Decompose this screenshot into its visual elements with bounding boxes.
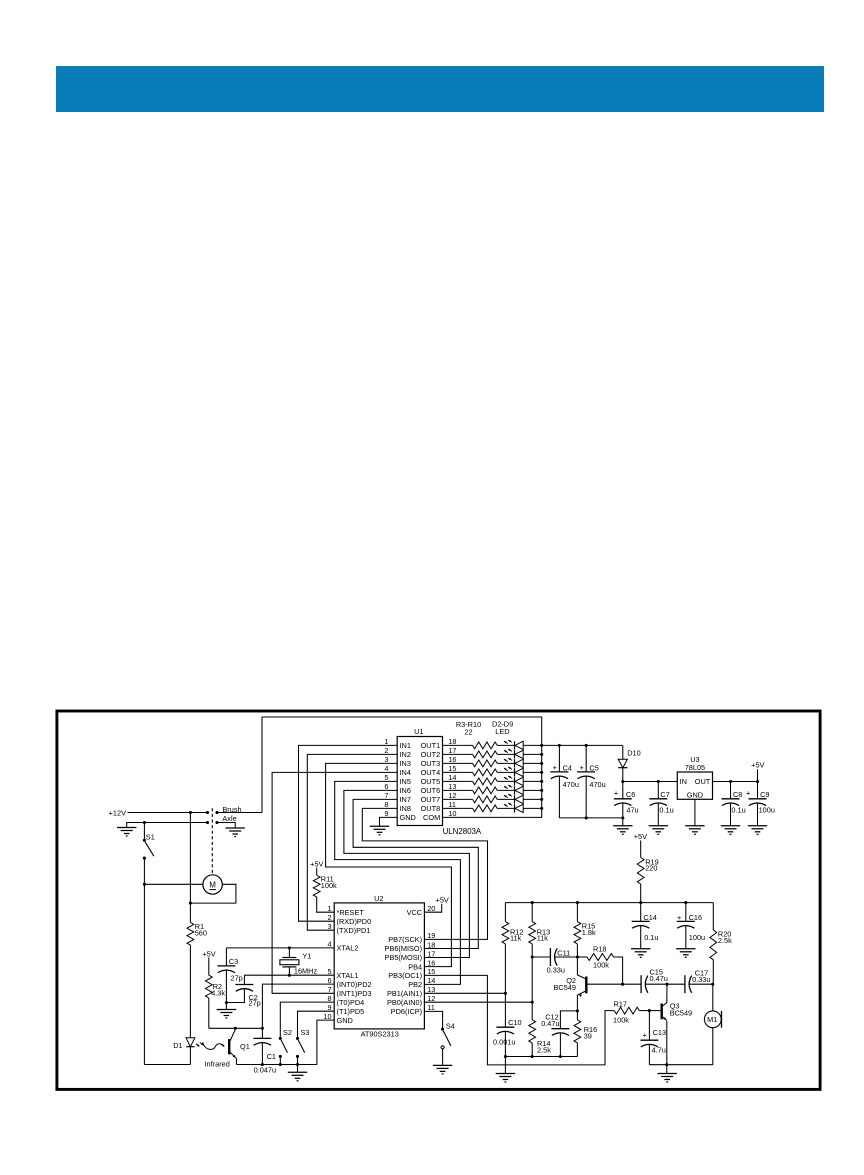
wire U2 pin9 to S3 [298,1011,335,1038]
ground at U3 [685,825,704,827]
svg-text:AT90S2313: AT90S2313 [361,1029,399,1038]
wire LED rail to C4 C5 D10 [542,744,623,746]
svg-text:4: 4 [384,764,388,773]
svg-text:C9: C9 [760,790,769,799]
svg-text:XTAL1: XTAL1 [337,971,359,980]
ic U1 ULN2803A body [397,727,482,836]
wire U2 pin11 to S4 [424,1011,442,1029]
svg-text:VCC: VCC [407,908,423,917]
svg-text:C7: C7 [660,790,669,799]
resistor R9 [443,796,515,803]
svg-text:+: + [677,913,681,922]
junction axle left brush [206,821,209,824]
svg-text:PB1(AIN1): PB1(AIN1) [387,989,422,998]
junction R14 gnd [531,1055,534,1058]
svg-text:27p: 27p [249,999,261,1008]
junction LED row 1 [540,744,543,747]
resistor R3 [443,742,515,749]
wire R13 to R14 [531,957,533,1002]
junction brush left [206,811,209,814]
wire S1 down [143,858,145,1064]
ground at C6 [613,818,632,834]
wire axle left [127,823,208,828]
resistor R2 4.3k [205,958,225,1029]
capacitor C11 0.33u [532,948,577,975]
wire analog +5V rail [505,902,713,904]
svg-text:+5V: +5V [202,949,215,958]
svg-text:13: 13 [427,985,435,994]
junction C7 top [657,780,660,783]
svg-text:+12V: +12V [109,808,126,817]
svg-text:0.47u: 0.47u [541,1019,559,1028]
junction C16 top [684,901,687,904]
svg-text:+5V: +5V [310,859,323,868]
wire U1 IN2 to U2 pin3 [307,754,397,930]
svg-text:7: 7 [328,985,332,994]
wire C4 C5 ground rail [559,817,622,819]
svg-text:0.1u: 0.1u [659,806,673,815]
svg-text:2: 2 [384,746,388,755]
svg-text:2.5k: 2.5k [718,936,732,945]
svg-text:0.47u: 0.47u [650,974,668,983]
svg-text:(T0)PD4: (T0)PD4 [337,998,365,1007]
svg-text:PB7(SCK): PB7(SCK) [388,935,422,944]
U1 pin9 ground [380,817,398,826]
wire U2 pin10 GND [317,1020,334,1064]
svg-text:0.1u: 0.1u [731,806,745,815]
node +5V to R19 [634,832,647,858]
wire U1 IN6 to U2 pin17 [344,790,470,957]
svg-text:OUT3: OUT3 [421,759,441,768]
junction S3 gnd [296,1063,299,1066]
capacitor C8 0.1u [722,782,746,826]
svg-text:12: 12 [427,994,435,1003]
svg-text:GND: GND [337,1016,353,1025]
capacitor C4 470u [550,745,579,818]
junction R20 M1 node [711,983,714,986]
svg-text:1.8k: 1.8k [582,928,596,937]
transistor Q3 BC549 [649,984,692,1064]
svg-text:4: 4 [328,940,332,949]
junction C6 bottom [621,816,624,819]
svg-text:16: 16 [448,755,456,764]
capacitor C9 100u [746,782,775,826]
wire U1 IN5 to U2 pin14 [335,781,461,984]
svg-text:IN8: IN8 [400,804,411,813]
svg-text:4.3k: 4.3k [211,988,225,997]
resistor R6 [443,769,515,776]
svg-text:10: 10 [323,1012,331,1021]
svg-text:100u: 100u [689,933,705,942]
page banner bar [56,66,824,112]
svg-text:8: 8 [384,800,388,809]
wire axle right [217,823,235,829]
svg-text:Axle: Axle [222,814,236,823]
junction C5 bottom [585,816,588,819]
svg-text:11: 11 [448,800,456,809]
svg-text:(INT0)PD2: (INT0)PD2 [337,980,372,989]
svg-text:C1: C1 [267,1052,276,1061]
svg-text:PB4: PB4 [408,962,422,971]
junction C3 C2 gnd [225,1001,228,1004]
svg-text:Brush: Brush [222,805,241,814]
junction C1 top [261,1027,264,1030]
wire XTAL1 [244,974,334,976]
junction S2 gnd [279,1063,282,1066]
svg-text:11: 11 [427,1003,435,1012]
svg-text:27p: 27p [231,974,243,983]
svg-text:14: 14 [427,976,435,985]
wire U1 IN4 to U2 pin7 [272,772,397,993]
junction Y1 top [288,946,291,949]
phototransistor Q1 [229,1030,250,1065]
svg-text:100k: 100k [321,881,337,890]
resistor R7 [443,778,515,785]
svg-text:U1: U1 [414,727,423,736]
ic U2 AT90S2313 body [334,894,424,1038]
diode D10 [618,745,640,781]
svg-text:LED: LED [495,727,509,736]
svg-text:OUT2: OUT2 [421,750,441,759]
svg-text:5: 5 [384,773,388,782]
svg-text:560: 560 [195,928,207,937]
svg-text:6: 6 [384,782,388,791]
wire R2 to C1 node [209,1027,263,1029]
svg-text:39: 39 [584,1031,592,1040]
capacitor C13 4.7u [640,1011,666,1065]
svg-text:470u: 470u [589,780,605,789]
wire U2 pin8 to S2 [280,1002,334,1038]
resistor R20 2.5k [710,903,732,985]
svg-text:11k: 11k [537,934,549,943]
switch S4 [441,1021,455,1065]
LED D7 [504,785,542,795]
svg-text:0.33u: 0.33u [692,975,710,984]
LED D9 [504,803,542,813]
svg-text:2: 2 [328,913,332,922]
junction emitter ground [665,1063,668,1066]
LED D3 [504,749,542,759]
capacitor C2 27p [226,975,260,1008]
junction LED row 2 [540,753,543,756]
svg-text:22: 22 [464,727,472,736]
svg-text:XTAL2: XTAL2 [337,944,359,953]
svg-text:78L05: 78L05 [685,763,705,772]
svg-text:0.33u: 0.33u [547,966,565,975]
wire +12V top rail to LED anode rail [262,717,542,817]
junction C4 top [558,744,561,747]
svg-text:M: M [209,881,216,890]
svg-text:220: 220 [645,864,657,873]
svg-text:OUT5: OUT5 [421,777,441,786]
svg-text:S3: S3 [301,1028,310,1037]
motor M [203,875,222,894]
svg-text:D10: D10 [627,749,640,758]
junction LED row 7 [540,798,543,801]
svg-text:IN6: IN6 [400,786,411,795]
svg-text:47u: 47u [626,806,638,815]
svg-text:OUT: OUT [695,777,711,786]
svg-text:GND: GND [400,813,416,822]
ground at C3 [217,1003,236,1019]
svg-text:4.7u: 4.7u [652,1046,666,1055]
ground at S3 [288,1065,307,1081]
capacitor C6 47u [614,782,639,818]
wire S1 to motor [144,883,203,885]
capacitor C16 100u [677,903,705,949]
svg-text:BC549: BC549 [670,1008,692,1017]
svg-text:OUT7: OUT7 [421,795,441,804]
svg-text:C11: C11 [557,949,570,958]
svg-text:Y1: Y1 [302,951,311,960]
svg-text:+: + [746,788,750,797]
junction Q2 emitter node [576,1009,579,1012]
resistor R4 [443,751,515,758]
junction LED row 5 [540,780,543,783]
junction Y1 bottom [288,974,291,977]
svg-text:3: 3 [328,922,332,931]
svg-text:8: 8 [328,994,332,1003]
ground at U1 pin9 [370,825,389,827]
svg-text:3: 3 [384,755,388,764]
LED D6 [504,776,542,786]
svg-text:100k: 100k [593,960,609,969]
svg-text:IN1: IN1 [400,741,411,750]
svg-text:(INT1)PD3: (INT1)PD3 [337,989,372,998]
switch S2 [279,1028,292,1065]
junction Q1 collector [234,1027,237,1030]
junction LED row 3 [540,762,543,765]
svg-text:6: 6 [328,976,332,985]
svg-text:+5V: +5V [634,832,647,841]
junction axle right brush [215,821,218,824]
wire brush right [217,812,262,814]
capacitor C15 0.47u [623,968,668,994]
svg-text:20: 20 [427,904,435,913]
wire U1 IN3 to U2 pin16 [326,763,452,966]
wire U1 IN1 to U2 pin2 [299,745,398,921]
svg-text:C10: C10 [508,1018,521,1027]
svg-text:C13: C13 [653,1028,666,1037]
infrared light wave [203,1042,230,1068]
ground at C16 [676,948,695,950]
svg-text:IN2: IN2 [400,750,411,759]
svg-text:PB6(MISO): PB6(MISO) [385,944,423,953]
resistor R16 39 [574,1011,597,1057]
svg-text:C6: C6 [626,790,635,799]
svg-text:IN3: IN3 [400,759,411,768]
svg-text:C3: C3 [229,957,238,966]
microphone M1 [704,984,721,1064]
wire U2 pin12 AIN0 [424,1001,532,1003]
capacitor C7 0.1u [649,782,673,826]
schematic frame [57,711,820,1089]
svg-text:IN4: IN4 [400,768,411,777]
svg-text:OUT6: OUT6 [421,786,441,795]
wire +12V riser [261,717,263,813]
svg-text:13: 13 [448,782,456,791]
svg-text:+: + [614,788,618,797]
svg-text:S1: S1 [146,832,155,841]
switch S1 [143,823,155,860]
U2 pin numbers [323,904,435,1021]
capacitor C10 0.001u [493,993,522,1056]
junction R18 base [621,983,624,986]
LED D4 [504,758,542,768]
resistor R11 100k [310,859,337,912]
svg-text:2.5k: 2.5k [537,1046,551,1055]
svg-text:7: 7 [384,791,388,800]
svg-text:(TXD)PD1: (TXD)PD1 [337,926,371,935]
LED D5 [504,767,542,777]
junction C9 top [756,780,759,783]
capacitor C17 0.33u [667,969,713,994]
junction D10 C6 node [621,780,624,783]
svg-text:*RESET: *RESET [337,908,365,917]
svg-text:BC549: BC549 [554,983,576,992]
junction R12 AIN1 [504,992,507,995]
svg-text:Infrared: Infrared [205,1059,230,1068]
svg-text:GND: GND [687,791,703,800]
wire U2 pin13 AIN1 [424,992,505,994]
svg-text:17: 17 [427,949,435,958]
resistor R1 560 [187,813,207,1038]
wire XTAL2 [226,947,334,949]
svg-text:S4: S4 [446,1021,455,1030]
wire digital ground rail [237,1064,317,1066]
svg-text:+: + [643,1031,647,1040]
junction LED row 6 [540,789,543,792]
svg-text:16MHz: 16MHz [294,966,318,975]
ground at analog rail [496,1057,515,1083]
resistor R19 220 [637,857,658,902]
junction Q2 collector node [576,955,579,958]
junction LED row 4 [540,771,543,774]
svg-text:+5V: +5V [436,895,449,904]
ground at C9 [748,825,767,827]
svg-text:+5V: +5V [751,761,764,770]
svg-text:C8: C8 [733,790,742,799]
svg-text:0.1u: 0.1u [644,933,658,942]
LED D2 [504,740,542,750]
svg-text:15: 15 [427,967,435,976]
svg-text:R18: R18 [593,944,606,953]
LED D8 [504,794,542,804]
junction Q3 base C13 [648,1009,651,1012]
junction R13 C11 [531,955,534,958]
junction C12 gnd [559,1055,562,1058]
LED D1 infrared [173,1038,203,1065]
svg-text:12: 12 [448,791,456,800]
svg-text:+: + [553,763,557,772]
svg-text:D1: D1 [173,1041,182,1050]
label R3-R10 22 [456,720,513,737]
wire Q3 emitter ground rail [649,1064,712,1066]
resistor R14 2.5k [529,1002,551,1056]
svg-text:11k: 11k [510,934,522,943]
junction R1 top [189,811,192,814]
junction C10 gnd [504,1055,507,1058]
junction axle S1 [143,821,146,824]
junction C5 top [585,744,588,747]
capacitor C3 27p [217,948,242,1003]
svg-text:18: 18 [448,737,456,746]
resistor R10 [443,805,515,812]
svg-text:S2: S2 [283,1028,292,1037]
switch S3 [296,1028,310,1065]
svg-text:100k: 100k [613,1016,629,1025]
svg-text:0.001u: 0.001u [493,1037,515,1046]
junction brush right [215,811,218,814]
svg-text:16: 16 [427,958,435,967]
svg-text:C5: C5 [589,763,598,772]
svg-text:C4: C4 [563,763,572,772]
junction PB0 R14 [531,1001,534,1004]
wire D1 to S1 loop [144,1064,190,1066]
resistor R12 11k [502,903,523,994]
svg-text:C16: C16 [689,913,702,922]
ground at C8 [721,825,740,827]
node +5V output [751,761,764,782]
junction motor R1 [189,902,192,905]
ground at C14 [631,948,650,950]
junction LED row 8 [540,807,543,810]
axle dashed shaft [211,808,213,874]
wire U1 IN7 to U2 pin18 [353,799,478,948]
svg-text:(RXD)PD0: (RXD)PD0 [337,917,372,926]
svg-text:(T1)PD5: (T1)PD5 [337,1007,365,1016]
resistor R17 100k [424,975,649,1065]
svg-text:PB2: PB2 [408,980,422,989]
wire U2 pin6 to Q1 node [262,984,334,1028]
resistor R13 11k [529,903,550,957]
junction C15 Q3 collector [665,983,668,986]
svg-text:1: 1 [328,904,332,913]
resistor R18 100k [577,944,622,984]
svg-text:15: 15 [448,764,456,773]
svg-text:100u: 100u [759,806,775,815]
svg-text:5: 5 [328,967,332,976]
wire U2 VCC +5V [424,895,449,912]
junction C1 gnd [261,1063,264,1066]
wire motor to R1 [190,884,236,903]
svg-text:R17: R17 [613,999,626,1008]
junction R13 top [531,901,534,904]
svg-text:PB0(AIN0): PB0(AIN0) [387,998,422,1007]
capacitor C14 0.1u [632,903,659,949]
ground at axle left [117,827,136,829]
resistor R8 [443,787,515,794]
svg-text:9: 9 [328,1003,332,1012]
svg-text:18: 18 [427,940,435,949]
transistor Q2 BC549 [554,957,623,1011]
svg-text:M1: M1 [707,1015,717,1024]
svg-text:OUT4: OUT4 [421,768,441,777]
svg-text:IN5: IN5 [400,777,411,786]
svg-text:OUT8: OUT8 [421,804,441,813]
junction R19 rail [639,901,642,904]
ic U3 78L05 [677,755,712,826]
ground at axle right [226,827,245,829]
ground at C7 [649,825,668,827]
U1 pin numbers [384,737,456,818]
svg-text:COM: COM [423,813,440,822]
svg-text:ULN2803A: ULN2803A [443,827,482,836]
svg-text:PB3(OC1): PB3(OC1) [388,971,422,980]
svg-text:17: 17 [448,746,456,755]
svg-text:1: 1 [384,737,388,746]
wire +12V feed [128,812,208,814]
